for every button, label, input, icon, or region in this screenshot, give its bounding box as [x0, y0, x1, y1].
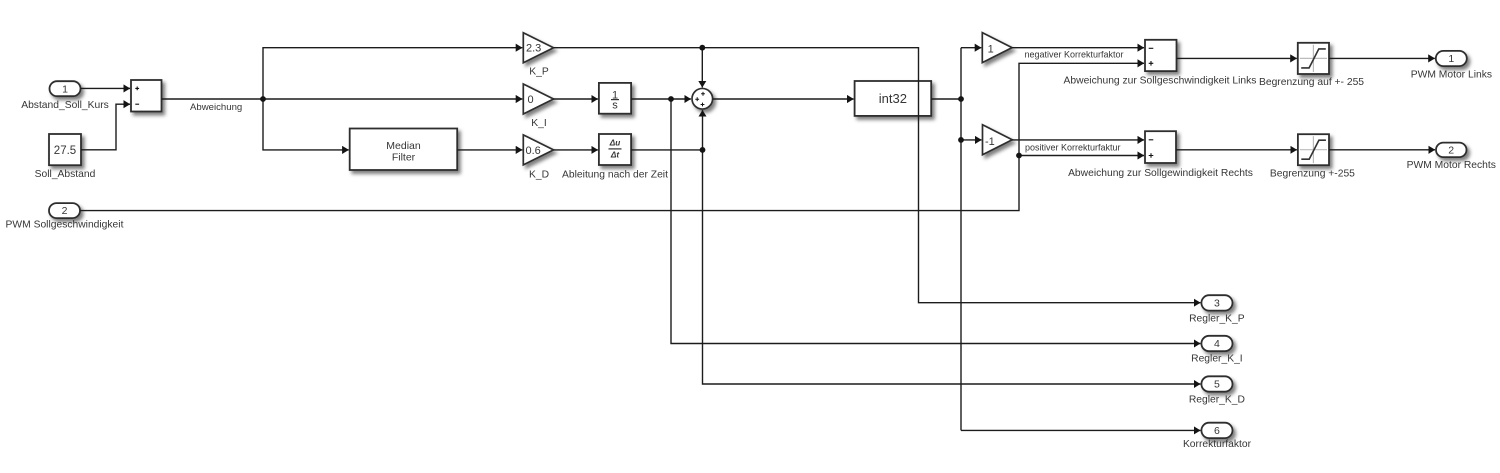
svg-text:K_D: K_D	[529, 169, 549, 180]
wire median filter to gain K_D	[457, 149, 522, 151]
wire integrator to sum circle	[631, 98, 691, 100]
integrator 1/s	[599, 83, 631, 114]
svg-text:Korrekturfaktor: Korrekturfaktor	[1183, 439, 1252, 450]
sum block S3 (rechts)	[1068, 131, 1253, 179]
wire sum S2 to saturation 1	[1177, 57, 1297, 59]
outport 2	[1407, 143, 1496, 171]
svg-text:Regler_K_I: Regler_K_I	[1191, 354, 1243, 365]
derivative du/dt	[562, 134, 668, 180]
svg-text:Ableitung nach der Zeit: Ableitung nach der Zeit	[562, 169, 668, 180]
wire gain K_P output to outport 3	[554, 48, 1201, 303]
constant 27.5	[35, 134, 96, 180]
svg-text:3: 3	[1214, 298, 1220, 310]
svg-text:6: 6	[1214, 425, 1220, 437]
sum block S2 (links)	[1064, 40, 1257, 87]
svg-text:negativer Korrekturfaktor: negativer Korrekturfaktor	[1025, 49, 1124, 59]
svg-text:1: 1	[62, 83, 68, 95]
median filter block	[350, 129, 458, 171]
wire sum circle to int32	[713, 98, 854, 100]
svg-text:Filter: Filter	[392, 151, 416, 163]
wire branch to outport 6	[961, 429, 1200, 431]
wire branch to gain -1	[961, 139, 982, 141]
wire sum S3 to saturation 2	[1176, 149, 1297, 151]
gain K_D	[523, 135, 553, 181]
wire branch to gain 1	[961, 47, 981, 49]
svg-text:1: 1	[1448, 53, 1454, 65]
wire branch down into sum circle top	[701, 48, 703, 88]
svg-text:Regler_K_P: Regler_K_P	[1189, 313, 1245, 324]
wire constant to sum S1 minus	[81, 104, 130, 150]
wire junction up into sum circle bottom	[702, 110, 704, 150]
wire Abweichung: sum S1 to gain K_I	[162, 98, 523, 100]
svg-text:Δt: Δt	[610, 151, 619, 160]
inport 2	[6, 203, 124, 231]
node Abweichung branch	[260, 96, 266, 102]
gain -1	[983, 125, 1013, 155]
int32 datatype conversion block	[855, 81, 932, 116]
node K_I branch	[668, 96, 674, 102]
outport 3	[1189, 295, 1245, 324]
svg-text:2.3: 2.3	[526, 43, 541, 55]
svg-text:4: 4	[1214, 338, 1220, 350]
wire PWM trunk to sum S2 plus	[80, 63, 1144, 210]
outport 4	[1191, 336, 1243, 365]
inport 1	[21, 81, 109, 111]
sum block S1	[131, 80, 162, 112]
outport 1	[1411, 51, 1492, 81]
node K_P branch	[699, 45, 705, 51]
svg-text:PWM Sollgeschwindigkeit: PWM Sollgeschwindigkeit	[6, 220, 124, 231]
wire saturation 2 to outport 2	[1329, 149, 1435, 151]
svg-text:Abweichung zur Sollgeschwindig: Abweichung zur Sollgeschwindigkeit Links	[1064, 75, 1257, 86]
outport 5	[1189, 376, 1245, 405]
outport 6	[1183, 423, 1252, 450]
svg-text:2: 2	[62, 205, 68, 217]
svg-text:Abweichung zur Sollgewindigkei: Abweichung zur Sollgewindigkeit Rechts	[1068, 168, 1253, 179]
sum junction circle	[692, 88, 713, 109]
wire inport1 to sum S1 plus	[81, 87, 131, 89]
node PWM branch	[1016, 153, 1022, 159]
node gain -1 feed branch	[958, 137, 964, 143]
svg-text:2: 2	[1448, 145, 1454, 157]
svg-text:1: 1	[988, 43, 994, 55]
wire saturation 1 to outport 1	[1329, 57, 1435, 59]
svg-text:Abweichung: Abweichung	[190, 102, 242, 113]
wire int32 output to branch column	[931, 98, 961, 100]
wire derivative to junction	[631, 149, 702, 151]
node int32 output branch	[958, 96, 964, 102]
svg-text:27.5: 27.5	[54, 145, 76, 157]
svg-text:-1: -1	[985, 136, 995, 148]
wire junction down to outport 5	[703, 150, 1201, 384]
wire branch down to median filter	[263, 99, 349, 150]
svg-text:s: s	[612, 100, 618, 112]
svg-text:Begrenzung auf +- 255: Begrenzung auf +- 255	[1259, 77, 1364, 88]
saturation block 2	[1270, 134, 1355, 179]
svg-text:Regler_K_D: Regler_K_D	[1189, 394, 1245, 405]
svg-text:Δu: Δu	[609, 138, 621, 147]
svg-text:0: 0	[528, 94, 534, 106]
gain K_I	[523, 84, 553, 129]
saturation block 1	[1259, 43, 1364, 88]
wire branch up to gain K_P	[263, 48, 522, 99]
svg-text:5: 5	[1214, 379, 1220, 391]
svg-text:PWM Motor Links: PWM Motor Links	[1411, 70, 1492, 81]
junction dots	[260, 45, 1022, 159]
gain 1	[982, 33, 1012, 63]
wire gain K_I to integrator	[554, 98, 598, 100]
svg-text:Abstand_Soll_Kurs: Abstand_Soll_Kurs	[21, 100, 109, 111]
wire branch column vertical	[960, 48, 962, 431]
svg-text:K_I: K_I	[531, 118, 546, 129]
node K_D branch	[700, 147, 706, 153]
svg-text:PWM Motor Rechts: PWM Motor Rechts	[1407, 160, 1496, 171]
gain K_P	[523, 33, 553, 78]
wire PWM branch to sum S3 plus	[1019, 155, 1144, 157]
wire gain 1 to sum S2 minus	[1012, 47, 1145, 49]
svg-text:positiver Korrekturfaktur: positiver Korrekturfaktur	[1025, 142, 1121, 152]
svg-text:Median: Median	[386, 140, 421, 152]
wire gain -1 to sum S3 minus	[1012, 139, 1144, 141]
svg-text:int32: int32	[879, 91, 907, 106]
svg-text:Begrenzung +-255: Begrenzung +-255	[1270, 169, 1355, 180]
svg-text:0.6: 0.6	[526, 145, 541, 157]
wire gain K_D to derivative	[554, 149, 598, 151]
svg-text:K_P: K_P	[529, 66, 549, 77]
svg-text:Soll_Abstand: Soll_Abstand	[35, 169, 96, 180]
wire branch down to outport 4	[671, 99, 1200, 344]
